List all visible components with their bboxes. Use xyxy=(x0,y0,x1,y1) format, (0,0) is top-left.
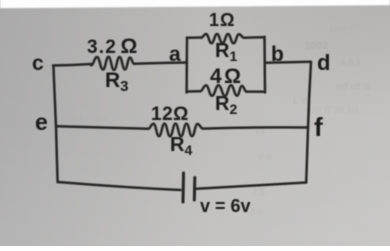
svg-text:A8.1: A8.1 xyxy=(340,58,362,69)
wire R3 to node a / box xyxy=(134,63,187,64)
parallel box left vertical xyxy=(185,38,188,93)
svg-text:f: f xyxy=(314,112,323,142)
top branch wire left xyxy=(187,36,201,39)
svg-text:2.5: 2.5 xyxy=(250,207,263,217)
bottom branch wire left xyxy=(187,90,200,93)
left vertical c-e-bottom xyxy=(53,66,57,183)
battery left plate xyxy=(182,173,186,202)
right vertical d-f-bottom xyxy=(306,62,311,182)
bottom branch wire right xyxy=(247,90,265,93)
battery right plate xyxy=(193,178,197,201)
wire c to R3 xyxy=(53,64,91,66)
resistor R2 zigzag 4 ohm xyxy=(200,85,247,96)
svg-text:4Ω: 4Ω xyxy=(210,65,244,88)
wire b to d corner xyxy=(265,62,311,63)
svg-text:7.5: 7.5 xyxy=(252,187,265,197)
svg-text:lsni'l: lsni'l xyxy=(330,25,353,36)
svg-text:ed of i5: ed of i5 xyxy=(336,82,371,93)
wire e to R4 xyxy=(57,126,149,129)
bottom wire right of battery xyxy=(197,183,307,189)
wire R4 to f xyxy=(203,127,308,128)
svg-text:b: b xyxy=(271,43,284,66)
resistor R3 zigzag 3.2 ohm xyxy=(91,57,134,70)
svg-text:d: d xyxy=(317,50,330,75)
svg-text:c: c xyxy=(32,52,44,75)
parallel box right vertical xyxy=(263,37,266,93)
svg-text:d 8: d 8 xyxy=(258,152,271,162)
handwritten labels xyxy=(32,10,330,216)
svg-text:v = 6v: v = 6v xyxy=(200,196,251,216)
resistor R1 zigzag 1 ohm xyxy=(201,34,244,43)
svg-text:12Ω: 12Ω xyxy=(151,104,189,125)
bottom wire left of battery xyxy=(58,182,181,190)
hand-drawn circuit xyxy=(53,34,311,202)
resistor R4 zigzag 12 ohm xyxy=(148,124,203,137)
bleed-through text (reverse of page) xyxy=(60,25,371,217)
svg-text:e: e xyxy=(35,109,48,135)
svg-text:1Ω: 1Ω xyxy=(209,10,235,30)
white page-top strip xyxy=(0,0,390,8)
svg-text:3.2Ω: 3.2Ω xyxy=(87,35,139,58)
svg-text:a: a xyxy=(169,43,181,66)
svg-text:oulov lnitni: oulov lnitni xyxy=(60,113,108,123)
top branch wire right xyxy=(244,36,265,39)
